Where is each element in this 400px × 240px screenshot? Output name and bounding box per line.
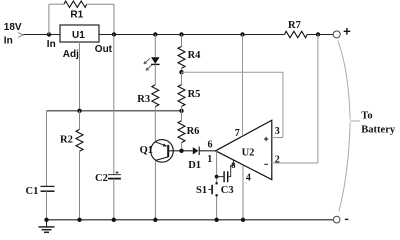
node C1 ground junction: [44, 218, 48, 222]
svg-text:Out: Out: [95, 44, 113, 55]
node - sign: [345, 218, 348, 220]
wire R6 lower lead: [181, 143, 183, 151]
svg-text:R5: R5: [188, 89, 201, 100]
switch S1 (pushbutton): [196, 182, 218, 196]
node C3 tap junction: [215, 175, 219, 179]
wire R1 loop right vertical: [113, 4, 115, 34]
wire LED branch upper: [154, 35, 156, 58]
wire Q1 base to D1: [168, 150, 193, 152]
svg-text:4: 4: [246, 173, 251, 184]
svg-text:R3: R3: [137, 94, 150, 105]
wire adj horizontal net: [47, 110, 182, 112]
node Q1 ground junction: [153, 218, 157, 222]
wire C2 branch from U1 out: [113, 35, 115, 175]
svg-text:R4: R4: [188, 50, 202, 61]
svg-text:Battery: Battery: [361, 125, 396, 136]
wire pin4 to ground bus: [242, 165, 244, 219]
node R2 ground junction: [77, 218, 81, 222]
wire C1 branch upper: [46, 111, 48, 186]
svg-text:To: To: [361, 111, 372, 122]
svg-text:U2: U2: [242, 147, 255, 158]
node S1 ground junction: [214, 218, 218, 222]
regulator U1: [47, 25, 113, 60]
wire R7 to + terminal: [307, 34, 333, 36]
resistor R2: [76, 129, 83, 151]
op-amp U2: [207, 120, 279, 184]
node pin7 supply junction: [240, 32, 244, 36]
transistor Q1 (PNP, mirrored): [140, 140, 174, 163]
svg-text:C2: C2: [95, 173, 108, 184]
capacitor C1: [26, 186, 55, 197]
node R5/R6 junction: [179, 109, 183, 113]
svg-text:1: 1: [207, 154, 212, 165]
wire pin2 lead: [272, 162, 318, 164]
wire pin1 vertical to S1: [216, 151, 218, 183]
resistor R6: [178, 121, 185, 143]
node pin2 feedback junction: [316, 32, 320, 36]
svg-text:6: 6: [208, 140, 213, 151]
svg-text:C1: C1: [26, 186, 39, 197]
capacitor C2 (electrolytic, + mark): [95, 171, 121, 184]
node + sign: [344, 28, 351, 35]
node input junction: [47, 32, 51, 36]
svg-text:S1: S1: [196, 185, 207, 196]
resistor R1: [64, 1, 87, 7]
node pin4 ground junction: [241, 218, 245, 222]
wire R1 loop top left segment: [49, 3, 64, 5]
wire C1 branch lower: [46, 191, 48, 220]
wire R1 loop left vertical: [48, 4, 50, 34]
svg-text:8: 8: [231, 160, 235, 170]
wire Q1 collector to ground bus: [154, 160, 156, 219]
LED D (triangle + bar): [151, 57, 160, 64]
wire R2 upper lead: [79, 111, 81, 130]
wire C3 to pin8: [228, 160, 233, 176]
wire C2 to ground bus: [113, 179, 115, 220]
wire R1 loop top right segment: [87, 3, 114, 5]
terminal - output circle: [333, 216, 340, 223]
wire LED to R3: [154, 64, 156, 84]
wire U1 Adj vertical: [79, 42, 81, 111]
capacitor C3: [217, 171, 234, 196]
wire top bus: U1 Out to R7: [99, 34, 285, 36]
svg-text:3: 3: [275, 126, 280, 137]
wire R2 lower lead: [79, 151, 81, 220]
wire R6 upper lead: [181, 111, 183, 121]
svg-text:R2: R2: [60, 134, 73, 145]
svg-text:In: In: [4, 36, 13, 47]
node U1 out junction: [112, 32, 116, 36]
resistor R7: [285, 31, 308, 37]
wire pin3 vertical to divider: [282, 72, 284, 137]
wire divider tap to pin3: [182, 71, 283, 73]
node adj/R2 junction: [77, 109, 81, 113]
input arrow chevron: [18, 33, 24, 38]
svg-text:C3: C3: [221, 185, 234, 196]
node R4 branch junction: [179, 32, 183, 36]
node 18V input label: [4, 22, 22, 46]
wire R5 lower lead: [181, 106, 183, 110]
ground symbol: [39, 220, 55, 233]
node C2 ground junction: [112, 218, 116, 222]
node LED branch junction: [153, 32, 157, 36]
wire R3 to Q1 emitter: [154, 107, 156, 142]
svg-text:18V: 18V: [4, 22, 22, 33]
wire pin3 lead: [272, 137, 283, 139]
resistor R4: [178, 46, 185, 68]
svg-text:R6: R6: [187, 126, 200, 137]
svg-text:Q1: Q1: [140, 145, 153, 156]
wire D1 to op-amp pin6: [199, 150, 215, 152]
brace to battery: [338, 41, 360, 212]
node R4/R5 divider tap: [179, 70, 183, 74]
node base/R6 junction: [179, 149, 183, 153]
wire S1 to ground bus: [216, 196, 218, 219]
terminal + output circle: [333, 31, 340, 38]
svg-text:Adj: Adj: [63, 49, 79, 60]
wire bottom ground bus: [47, 219, 334, 221]
svg-text:In: In: [47, 39, 56, 50]
svg-text:7: 7: [235, 128, 240, 139]
wire top bus: input to U1 In: [23, 34, 60, 36]
wire R4 lower lead: [181, 68, 183, 72]
wire pin2 vertical to + bus: [317, 35, 319, 164]
node To Battery label: [361, 111, 396, 136]
svg-text:D1: D1: [188, 160, 201, 171]
diode D1: [188, 147, 201, 171]
wire pin7 supply vertical: [242, 35, 244, 137]
svg-text:R1: R1: [70, 9, 83, 20]
resistor R5: [178, 85, 185, 107]
svg-text:2: 2: [275, 154, 280, 165]
wire R4 upper lead: [181, 35, 183, 47]
resistor R3: [152, 85, 159, 107]
svg-text:R7: R7: [288, 20, 301, 31]
LED emission arrows: [144, 58, 152, 70]
wire R5 upper lead: [181, 72, 183, 84]
svg-text:U1: U1: [72, 30, 85, 41]
